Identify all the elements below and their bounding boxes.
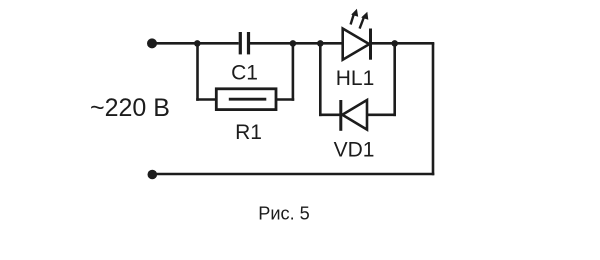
junction node A xyxy=(194,40,201,47)
diode VD1 cathode bar xyxy=(339,100,342,131)
LED HL1 emission arrow 2 xyxy=(360,12,369,29)
wire right vertical xyxy=(432,43,435,175)
wire RC left vertical xyxy=(196,43,199,101)
wire top middle segment xyxy=(250,42,343,45)
capacitor C1 xyxy=(239,32,250,54)
terminal dot bottom-left xyxy=(148,170,158,180)
svg-text:C1: C1 xyxy=(231,62,258,85)
resistor R1 inner bar xyxy=(229,98,266,101)
wire bottom xyxy=(152,173,434,176)
LED HL1 emission arrow 1 xyxy=(351,9,359,25)
wire diode-block lower-right horizontal xyxy=(367,114,396,117)
svg-text:Рис. 5: Рис. 5 xyxy=(258,204,310,224)
svg-text:VD1: VD1 xyxy=(334,139,375,162)
resistor R1 xyxy=(216,89,276,110)
svg-text:~220 В: ~220 В xyxy=(90,94,170,122)
junction node D xyxy=(391,40,398,47)
wire RC right horizontal xyxy=(276,98,294,101)
wire diode-block right vertical xyxy=(393,43,396,116)
wire diode-block left vertical xyxy=(319,43,322,116)
junction node B xyxy=(290,40,297,47)
wire RC left horizontal xyxy=(196,98,216,101)
diode VD1 triangle xyxy=(342,100,367,130)
wire top right segment xyxy=(371,42,435,45)
wire RC right vertical xyxy=(292,43,295,101)
wire top left segment xyxy=(151,42,239,45)
LED HL1 triangle xyxy=(343,29,370,60)
LED HL1 cathode bar xyxy=(369,29,372,60)
svg-text:HL1: HL1 xyxy=(336,67,375,90)
svg-text:R1: R1 xyxy=(235,121,262,144)
terminal dot top-left xyxy=(147,38,157,48)
junction node C xyxy=(317,40,324,47)
wire diode-block lower-left horizontal xyxy=(319,114,341,117)
